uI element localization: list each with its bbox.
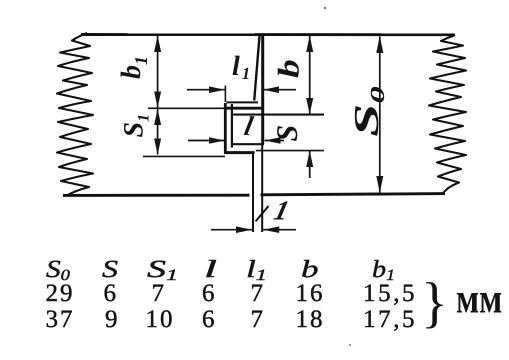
joint: upper step face (right plate)	[224, 107, 262, 110]
extension stub above groove wall	[224, 86, 226, 103]
svg-text:18: 18	[296, 306, 325, 333]
dimension l left arrow line	[188, 140, 225, 142]
dimension line b	[309, 36, 311, 114]
bottom surface line left	[63, 194, 250, 197]
table value rows	[46, 280, 418, 333]
arrowhead S1 top (up)	[154, 109, 161, 125]
dimension line b1/S1	[157, 36, 159, 155]
joint: tongue bottom edge	[232, 143, 264, 145]
paper speck top	[324, 7, 326, 9]
svg-text:S0: S0	[347, 86, 389, 137]
svg-text:l1: l1	[232, 51, 250, 83]
svg-text:b: b	[273, 59, 306, 78]
joint: stem right line	[261, 144, 263, 232]
leader slash for gap 1	[256, 206, 269, 222]
svg-text:29: 29	[46, 280, 75, 307]
arrowhead b bottom (down)	[306, 98, 313, 114]
svg-text:b1: b1	[116, 56, 151, 79]
svg-text:S: S	[102, 256, 118, 283]
svg-text:}: }	[421, 272, 448, 334]
svg-text:16: 16	[296, 280, 325, 307]
extension line at groove bottom (S1)	[143, 155, 225, 157]
table header row	[46, 256, 395, 284]
svg-text:6: 6	[202, 280, 217, 307]
svg-text:9: 9	[105, 306, 120, 333]
dimension 1 left arrow line	[211, 229, 252, 231]
svg-text:6: 6	[104, 280, 119, 307]
joint: left plate upper edge (slant)	[254, 35, 259, 101]
dimension 1 right arrow line	[263, 229, 296, 231]
dimension l right arrow line	[265, 140, 285, 142]
svg-text:15,5: 15,5	[363, 280, 417, 307]
arrowhead gap1 left (right-pointing)	[236, 226, 252, 233]
dimension S lower arrow line	[309, 151, 311, 178]
svg-text:7: 7	[251, 306, 266, 333]
svg-text:7: 7	[152, 280, 167, 307]
joint: tongue left edge	[231, 115, 233, 148]
dimension line S0	[379, 37, 381, 193]
svg-text:17,5: 17,5	[363, 306, 417, 333]
svg-text:S1: S1	[119, 114, 153, 138]
joint: stem left line	[252, 153, 254, 232]
dimension l1 right arrow line	[263, 89, 296, 91]
right break (wavy) line	[429, 35, 466, 193]
joint: tongue stub	[231, 104, 233, 115]
bottom surface line right	[261, 194, 446, 195]
svg-text:6: 6	[202, 306, 217, 333]
joint: upper step face (left plate)	[227, 101, 259, 103]
svg-text:l: l	[204, 256, 217, 283]
arrowhead S0 top (up)	[376, 36, 383, 53]
arrowhead S0 bottom (down)	[376, 176, 383, 193]
svg-text:b: b	[301, 256, 319, 283]
joint: tongue top edge and b extension line	[232, 114, 324, 116]
arrowhead b1 bottom (down)	[154, 92, 161, 108]
left break (wavy) line	[57, 33, 93, 196]
svg-text:37: 37	[46, 306, 75, 333]
tick between b1 and S1	[148, 107, 224, 109]
extension line at S bottom right	[256, 150, 324, 152]
paper speck bottom	[349, 344, 351, 346]
joint: groove left wall	[224, 103, 227, 154]
svg-text:7: 7	[251, 280, 266, 307]
arrowhead l left (right-pointing)	[209, 137, 225, 144]
top surface line	[81, 33, 455, 36]
joint: right plate upper edge (vertical)	[261, 35, 264, 144]
arrowhead S bottom (up-pointing)	[306, 151, 313, 167]
arrowhead b1 top (up)	[154, 36, 161, 53]
svg-text:10: 10	[146, 306, 175, 333]
arrowhead l right (left-pointing)	[265, 137, 281, 144]
arrowhead S1 bottom (down)	[154, 139, 161, 155]
svg-text:1: 1	[271, 195, 292, 226]
joint: groove bottom face	[225, 151, 254, 154]
svg-text:мм: мм	[456, 276, 502, 322]
arrowhead gap1 right (left-pointing)	[263, 226, 279, 233]
arrowhead l1 right (left-pointing)	[263, 86, 279, 93]
arrowhead b top (up)	[306, 36, 313, 53]
arrowhead l1 left (right-pointing)	[209, 86, 225, 93]
dimension l1 left arrow line	[187, 89, 225, 91]
svg-text:S: S	[271, 125, 304, 142]
